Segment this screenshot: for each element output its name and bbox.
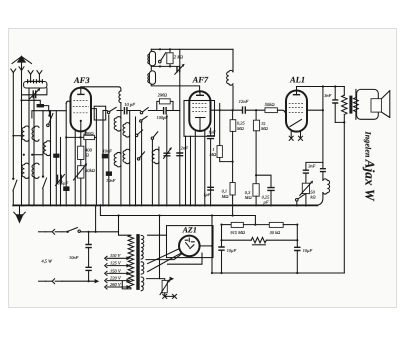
switch S3b <box>135 134 137 136</box>
grid rail to AF7 <box>151 84 199 92</box>
tone network <box>322 87 324 169</box>
output transformer <box>335 87 344 96</box>
10nF cap line x103 <box>102 111 104 206</box>
paper edge <box>9 29 397 308</box>
2nF cap on oscillator drop <box>176 153 183 156</box>
svg-text:MΩ: MΩ <box>244 195 253 200</box>
AF7 pin wires <box>186 130 205 205</box>
wire x56 with dark cap <box>55 111 57 206</box>
svg-text:10µF: 10µF <box>303 248 313 253</box>
left IF coil pair 1 <box>28 88 30 205</box>
oscillator cell bottom wire <box>151 65 180 67</box>
antenna terminal plugs <box>11 69 16 73</box>
svg-text:3nF: 3nF <box>324 93 331 98</box>
svg-text:1: 1 <box>212 147 214 152</box>
rectifier wires <box>148 234 167 236</box>
mains top wire <box>39 231 46 233</box>
svg-text:2nF: 2nF <box>181 145 188 150</box>
svg-text:50kΩ: 50kΩ <box>85 168 96 173</box>
svg-text:µF: µF <box>263 200 269 205</box>
antenna <box>12 55 32 205</box>
voltage taps <box>110 253 122 287</box>
potentiometer 50k <box>80 160 82 166</box>
oscillator coil 2 <box>149 71 155 84</box>
pilot lamp circuit <box>147 279 165 281</box>
output coil end <box>323 179 330 194</box>
svg-text:10nF: 10nF <box>103 148 113 153</box>
AF3 pin wires <box>66 101 86 205</box>
resistor 15M <box>255 110 257 120</box>
oscillator trimmer <box>179 49 181 205</box>
ground bus <box>13 204 317 206</box>
anode wire <box>307 109 323 111</box>
bus junction dots <box>12 204 272 206</box>
svg-text:MΩ: MΩ <box>208 152 217 157</box>
cathode cap 1uF <box>210 128 212 135</box>
svg-text:125 V: 125 V <box>110 261 122 266</box>
coupling to pot: 3nF #2 <box>306 162 323 170</box>
svg-text:2 kΩ: 2 kΩ <box>174 54 184 60</box>
svg-text:12nF: 12nF <box>239 99 249 104</box>
tone switch <box>296 199 299 202</box>
transformer core <box>136 234 139 290</box>
svg-text:260 V: 260 V <box>110 282 122 287</box>
oscillator coil 1 <box>149 51 155 66</box>
loudspeaker <box>357 89 379 119</box>
potentiometer 50k tone <box>302 183 309 193</box>
coil on grid rail <box>119 91 121 103</box>
oscillator coupling coil x233 <box>232 49 234 72</box>
svg-text:AZ1: AZ1 <box>182 225 197 234</box>
top rail to output transformer <box>297 86 345 88</box>
svg-text:1µF: 1µF <box>208 130 216 135</box>
svg-text:MΩ: MΩ <box>260 126 269 131</box>
svg-text:10µF: 10µF <box>227 248 237 253</box>
electrolytics <box>221 225 223 247</box>
svg-text:150 V: 150 V <box>110 268 122 273</box>
svg-text:110 V: 110 V <box>110 253 122 258</box>
svg-text:kΩ: kΩ <box>310 195 316 200</box>
svg-text:220 V: 220 V <box>110 276 122 281</box>
svg-text:4,5 W: 4,5 W <box>42 259 53 264</box>
band switch S-a <box>50 111 52 206</box>
svg-text:AF3: AF3 <box>73 75 90 85</box>
svg-text:0,5µF: 0,5µF <box>58 181 69 186</box>
svg-text:MΩ: MΩ <box>221 194 230 199</box>
band switch box top <box>32 111 66 118</box>
AZ1 box <box>167 226 214 258</box>
bias rail y215.5 <box>100 205 255 225</box>
0,5uF cap on x64 <box>65 104 67 206</box>
switch S0 <box>107 111 109 113</box>
coil on x50 <box>44 141 51 156</box>
trimmer on x60 <box>60 137 62 205</box>
cap 0,25uF <box>256 175 271 187</box>
switch S4 <box>139 152 144 158</box>
svg-text:10 pF: 10 pF <box>124 102 135 107</box>
mains caps <box>88 232 90 244</box>
svg-text:AL1: AL1 <box>289 74 305 84</box>
coil A2 x129.7 <box>129 111 131 206</box>
resistor 0,1M <box>230 183 235 196</box>
bottom rail <box>212 272 344 274</box>
resistor 0,25M <box>232 110 234 120</box>
wire x43 <box>42 111 44 206</box>
band switch S-b (x13) <box>12 178 14 180</box>
svg-text:915 MΩ: 915 MΩ <box>230 230 245 235</box>
svg-text:50kΩ: 50kΩ <box>265 102 276 107</box>
anode wire y110.2 <box>211 109 242 111</box>
rectifier filament leads <box>146 254 182 260</box>
transformer primary <box>129 234 131 236</box>
svg-text:30 kΩ: 30 kΩ <box>270 230 281 235</box>
heater drop <box>159 216 161 279</box>
fixed capacitor (dark) <box>37 104 44 107</box>
svg-text:10nF: 10nF <box>106 178 116 183</box>
zigzag resistor row <box>222 239 252 241</box>
10nF cap line x108.8 <box>108 115 110 205</box>
node antenna junction <box>20 99 22 101</box>
svg-text:MΩ: MΩ <box>236 126 245 131</box>
cap 1uF lower <box>207 187 214 190</box>
resistor 400 ohm vertical <box>78 146 84 159</box>
svg-text:1µF: 1µF <box>203 192 211 197</box>
signal wire y110.5 <box>103 110 123 112</box>
resistor 400 ohm horizontal <box>79 136 81 138</box>
switch S1 <box>140 112 142 114</box>
100pF cap <box>128 110 163 112</box>
antenna coils <box>28 81 34 83</box>
right side long wire <box>343 122 345 273</box>
band switch S-c (x43) <box>42 175 44 177</box>
resistor 2k <box>169 49 171 66</box>
svg-text:2MΩ: 2MΩ <box>158 92 168 97</box>
grid cap rail AF3 <box>81 87 121 91</box>
resistor 0,3M <box>253 184 259 197</box>
antenna coil box <box>24 82 47 89</box>
coil E x156.9 <box>158 147 160 205</box>
svg-text:3nF: 3nF <box>308 164 315 169</box>
svg-text:AF7: AF7 <box>192 74 209 84</box>
switch S3 <box>151 137 153 139</box>
mains bottom wire <box>39 280 46 282</box>
AF7 shield box <box>184 101 215 137</box>
svg-text:10nF: 10nF <box>69 255 79 260</box>
oscillator top rail <box>151 48 233 50</box>
resistor 1M <box>219 104 221 146</box>
trimmer x163.5 <box>166 115 168 205</box>
small shield box right of AF3 <box>94 106 106 120</box>
AL1 pins with X <box>291 132 300 138</box>
coil bumps on x118.5 <box>114 117 121 131</box>
antenna trimmer capacitor <box>22 88 47 95</box>
link wire left <box>12 135 14 137</box>
coil link wire <box>23 154 25 156</box>
left IF coil pair 2 <box>33 95 35 206</box>
ground symbol <box>19 205 21 218</box>
oscillator switch <box>159 60 162 63</box>
B+ filter <box>222 224 232 226</box>
rectifier AZ1 <box>179 236 200 257</box>
switch S2 <box>140 120 142 122</box>
transformer secondaries <box>141 235 144 259</box>
